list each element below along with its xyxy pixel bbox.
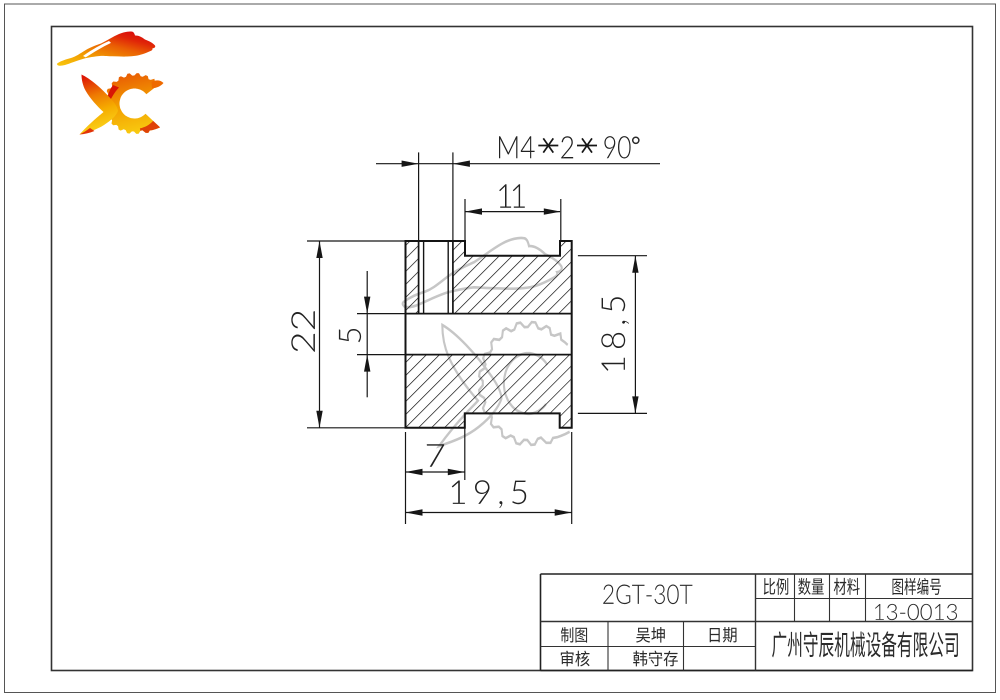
dim 22 <box>307 240 406 242</box>
pulley cross-section hatched areas <box>406 241 419 314</box>
title block <box>541 573 973 575</box>
faint watermark curves <box>403 238 570 446</box>
dim 19,5 <box>405 480 407 524</box>
bore edges <box>406 313 572 315</box>
dim texts <box>499 136 535 158</box>
set screw hole M4 <box>418 241 420 314</box>
dim 5 <box>357 313 406 315</box>
logo swoosh <box>57 31 155 65</box>
dim 11 <box>464 199 466 241</box>
pulley outline <box>406 241 572 428</box>
dim 7 <box>405 432 407 480</box>
dim M4*2*90 leader <box>376 163 660 165</box>
logo gear C <box>104 73 160 134</box>
title texts <box>603 585 692 605</box>
dim 18,5 <box>578 255 647 257</box>
logo S stroke <box>80 75 119 135</box>
